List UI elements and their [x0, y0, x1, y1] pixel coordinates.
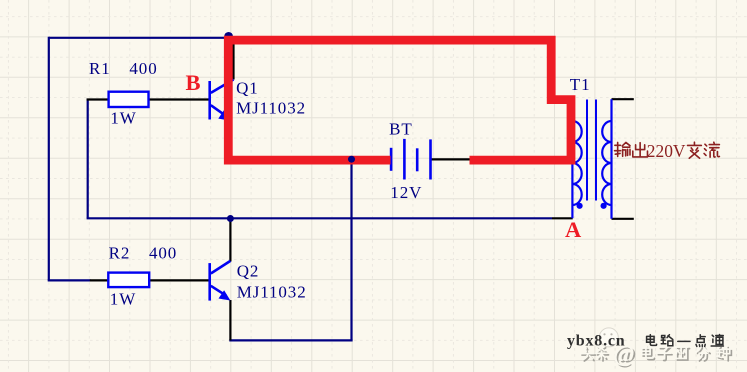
junction dot top rail / Q1 collector [224, 32, 233, 41]
output label "输出220V交流" (dark red) [615, 142, 648, 156]
svg-text:R1: R1 [89, 59, 111, 78]
wire R2 row left [48, 279, 91, 281]
wire bottom rail node A [87, 217, 552, 219]
watermark light embossed "头条@电子两分钟" [582, 348, 731, 361]
junction dot battery / emitter branch [348, 156, 355, 163]
wire battery junction vertical [350, 159, 352, 340]
svg-text:MJ11032: MJ11032 [236, 98, 306, 117]
wire T1 secondary bottom lead [612, 218, 634, 220]
wire R1 inner vertical [87, 99, 89, 219]
watermark logo blob [599, 328, 618, 347]
transformer T1 secondary winding [602, 99, 611, 219]
transformer T1 primary winding [572, 100, 581, 219]
svg-text:R2: R2 [109, 244, 131, 263]
svg-text:T1: T1 [570, 75, 591, 94]
svg-text:220V: 220V [647, 141, 686, 161]
svg-text:400: 400 [149, 244, 177, 263]
svg-text:12V: 12V [390, 183, 422, 202]
resistor R1 [109, 92, 149, 107]
svg-text:B: B [186, 70, 201, 95]
wire R2 left pin [90, 279, 109, 281]
wire top rail [49, 37, 233, 39]
svg-text:1W: 1W [110, 290, 136, 309]
wire emitter row [229, 339, 352, 341]
svg-text:400: 400 [129, 59, 157, 78]
svg-text:1W: 1W [110, 109, 136, 128]
wire Q1 collector vertical [232, 38, 234, 80]
transformer T1 polarity dot secondary [601, 203, 607, 209]
wire T1 secondary top lead [612, 98, 634, 100]
transistor Q1 [210, 80, 234, 120]
wire Q1 emitter to battery [230, 159, 391, 161]
wire left outer vertical [48, 37, 50, 281]
red highlighted current path [228, 40, 571, 160]
svg-text:Q1: Q1 [236, 79, 259, 98]
resistor R2 [108, 273, 149, 288]
svg-text:Q2: Q2 [237, 262, 260, 281]
wire T1 primary bottom pin [552, 217, 573, 219]
wire battery right lead [431, 158, 471, 160]
svg-text:ybx8.cn: ybx8.cn [567, 333, 626, 350]
svg-text:BT: BT [389, 119, 413, 138]
wire R1 right pin to Q1 base [149, 98, 210, 100]
svg-text:MJ11032: MJ11032 [237, 283, 307, 302]
svg-text:A: A [565, 217, 582, 242]
wire Q2 collector vertical [229, 218, 231, 261]
wire Q2 emitter vertical [229, 300, 231, 340]
battery BT [391, 139, 430, 180]
transformer T1 polarity dot primary [577, 203, 583, 209]
wire R2 right pin to Q2 base [149, 279, 210, 281]
wire Q1 emitter vertical [229, 121, 231, 161]
transformer T1 core [587, 100, 596, 201]
transistor Q2 [210, 261, 231, 301]
wire R1 left pin [87, 98, 109, 100]
junction dot bottom rail / Q2 collector [227, 215, 234, 222]
